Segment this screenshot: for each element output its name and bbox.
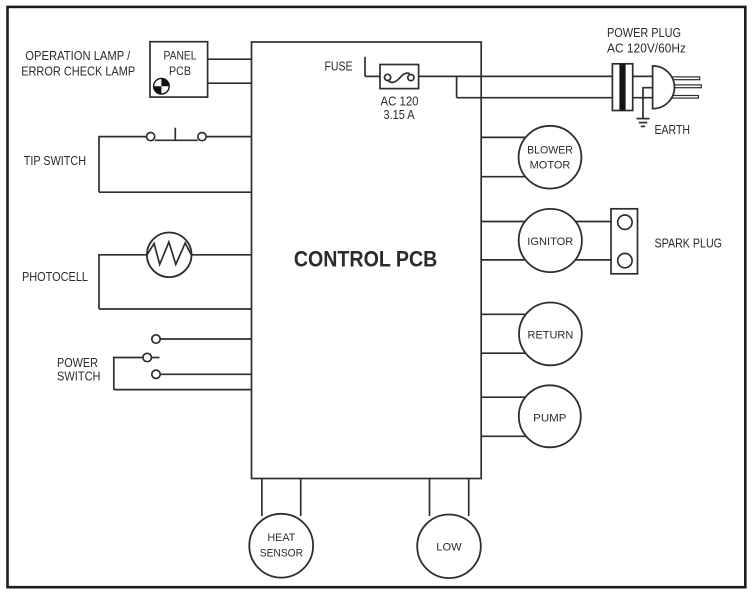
wire grommet to plug (neutral) <box>633 97 653 99</box>
svg-text:IGNITOR: IGNITOR <box>527 236 573 248</box>
wire control PCB to low sensor (right) <box>468 479 470 517</box>
wire control PCB to heat sensor (right) <box>300 479 302 517</box>
svg-text:PCB: PCB <box>169 66 191 78</box>
wire control PCB to return (lower) <box>481 352 550 354</box>
svg-text:HEAT: HEAT <box>267 532 295 544</box>
wire grommet to plug (line) <box>633 75 653 77</box>
wire control PCB to ignitor / spark plug (upper) <box>481 221 611 223</box>
svg-text:OPERATION LAMP /: OPERATION LAMP / <box>25 48 130 63</box>
wire control PCB to heat sensor (left) <box>261 479 263 517</box>
wire photocell bottom <box>99 308 252 310</box>
tip switch S1 <box>147 128 207 141</box>
wire control PCB to ignitor / spark plug (lower) <box>481 259 611 261</box>
svg-text:AC 120: AC 120 <box>381 94 419 108</box>
svg-text:AC 120V/60Hz: AC 120V/60Hz <box>607 40 686 55</box>
svg-text:PUMP: PUMP <box>533 413 566 425</box>
wire power switch pole <box>114 358 143 390</box>
power plug cord grommet <box>612 64 632 111</box>
wire junction to power plug (neutral) <box>457 97 613 99</box>
wire control PCB to blower motor (lower) <box>481 176 550 178</box>
spark plug <box>611 209 638 274</box>
panel PCB registration mark <box>154 78 170 94</box>
blower motor M1 <box>519 126 582 189</box>
svg-text:CONTROL PCB: CONTROL PCB <box>294 247 438 272</box>
junction drop wire <box>456 76 458 97</box>
heat sensor <box>249 514 313 578</box>
pump <box>519 385 581 447</box>
wire earth branch <box>643 88 653 119</box>
svg-text:RETURN: RETURN <box>528 330 574 342</box>
control PCB U1 <box>252 42 482 479</box>
fuse leader line <box>364 57 366 77</box>
svg-text:3.15 A: 3.15 A <box>384 108 416 122</box>
svg-text:BLOWER: BLOWER <box>527 144 573 156</box>
power plug P1 <box>653 66 702 109</box>
panel PCB board <box>150 42 208 97</box>
wire control PCB to pump (upper) <box>481 396 550 398</box>
svg-text:FUSE: FUSE <box>325 58 353 73</box>
wire photocell to control PCB <box>192 254 252 256</box>
svg-text:SWITCH: SWITCH <box>57 369 101 384</box>
wire control PCB to blower motor (upper) <box>481 136 550 138</box>
wire leader to fuse <box>365 75 380 77</box>
photocell R1 <box>147 233 192 278</box>
wire control PCB to pump (lower) <box>481 435 550 437</box>
ignitor <box>519 209 582 272</box>
svg-text:MOTOR: MOTOR <box>530 160 571 172</box>
wire tip switch bottom <box>99 191 252 193</box>
wire control PCB to low sensor (left) <box>429 479 431 517</box>
wire fuse to power plug (line) <box>419 75 613 77</box>
wire control PCB to return (upper) <box>481 313 550 315</box>
wire power switch top contact to control PCB <box>160 338 251 340</box>
svg-text:EARTH: EARTH <box>655 122 691 137</box>
wire power switch bottom <box>114 389 252 391</box>
label: operation lamp / error check lamp <box>21 48 135 78</box>
wire panel PCB to control PCB (lower) <box>208 82 252 84</box>
svg-text:LOW: LOW <box>436 542 462 554</box>
return motor <box>519 303 582 366</box>
svg-text:POWER PLUG: POWER PLUG <box>607 25 681 40</box>
wire photocell left <box>99 255 147 309</box>
power switch S2 <box>143 335 160 379</box>
fuse F1 <box>380 65 419 89</box>
svg-text:SENSOR: SENSOR <box>260 547 303 559</box>
wire tip switch top <box>99 137 147 193</box>
ground symbol <box>636 119 649 127</box>
svg-text:PHOTOCELL: PHOTOCELL <box>22 269 88 284</box>
low sensor <box>417 515 481 579</box>
svg-text:ERROR CHECK LAMP: ERROR CHECK LAMP <box>21 64 135 79</box>
wire power switch lower contact to control PCB <box>160 373 251 375</box>
svg-text:TIP SWITCH: TIP SWITCH <box>24 153 86 168</box>
label: power plug <box>607 25 686 55</box>
label: power switch <box>57 355 101 384</box>
wire tip switch to control PCB <box>206 136 251 138</box>
svg-text:PANEL: PANEL <box>164 51 198 63</box>
fuse value labels <box>381 94 419 121</box>
svg-text:SPARK PLUG: SPARK PLUG <box>655 235 723 250</box>
wire panel PCB to control PCB (upper) <box>208 58 252 60</box>
